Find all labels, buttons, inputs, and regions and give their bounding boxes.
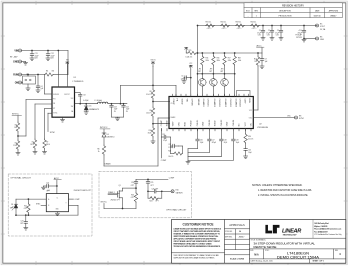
- wire gate row: [198, 73, 235, 75]
- jumper JP1: [27, 74, 29, 76]
- svg-text:C16: C16: [200, 140, 203, 142]
- capacitor C26: [147, 190, 149, 192]
- U2 top pin stubs: [172, 94, 174, 96]
- svg-text:JP4: JP4: [221, 68, 224, 70]
- svg-text:OPT: OPT: [155, 201, 158, 203]
- svg-text:470µF: 470µF: [298, 32, 302, 34]
- svg-text:C22: C22: [46, 182, 49, 184]
- svg-text:FB: FB: [53, 103, 55, 105]
- title block outline: [172, 220, 346, 264]
- node SYNC: [48, 112, 52, 114]
- wire RUN into U1: [44, 75, 46, 95]
- wire step: [188, 159, 233, 161]
- terminal E3 RUN: [19, 73, 22, 76]
- svg-text:47µF: 47µF: [114, 109, 118, 111]
- svg-text:RS1 0.1: RS1 0.1: [206, 22, 212, 24]
- svg-text:RS4 0.1: RS4 0.1: [251, 22, 257, 24]
- svg-text:6.3V: 6.3V: [258, 35, 261, 37]
- svg-text:U3: U3: [48, 190, 50, 192]
- svg-text:R3: R3: [15, 124, 17, 126]
- svg-text:R25: R25: [189, 50, 192, 52]
- terminal E8 SYNC: [295, 116, 298, 119]
- resistor R4: [45, 73, 54, 76]
- resistor R17: [224, 52, 226, 54]
- svg-text:OPT: OPT: [209, 71, 212, 73]
- optional circuit 1 box: [8, 174, 92, 236]
- svg-text:R17: R17: [228, 58, 231, 60]
- wire U3 output Y: [69, 198, 74, 200]
- capacitor C22: [56, 185, 58, 187]
- op U3 74HC1G86: [46, 194, 68, 212]
- resistor R24: [147, 191, 149, 198]
- svg-text:47µF: 47µF: [200, 142, 204, 144]
- wire avcc to U3: [56, 180, 58, 193]
- svg-text:E8: E8: [299, 115, 301, 117]
- wire cap gnd rail: [112, 116, 124, 118]
- svg-text:OPTIONAL CIRCUIT: OPTIONAL CIRCUIT: [166, 208, 187, 211]
- svg-text:1. RESISTOR AND CAPCITOR CASE: 1. RESISTOR AND CAPCITOR CASE SIZE IS 12…: [258, 189, 312, 192]
- svg-text:RUN/SS: RUN/SS: [53, 94, 59, 96]
- svg-text:C8: C8: [83, 94, 85, 96]
- svg-text:OSC: OSC: [179, 121, 181, 126]
- resistor RS1: [206, 24, 215, 27]
- capacitor C16: [197, 129, 199, 140]
- svg-text:47µF: 47µF: [266, 32, 270, 34]
- svg-text:COMP: COMP: [75, 199, 81, 201]
- capacitor C8: [75, 92, 80, 94]
- svg-text:R20: R20: [168, 151, 171, 153]
- svg-text:RUN: RUN: [13, 75, 18, 77]
- svg-text:C1: C1: [259, 30, 261, 32]
- wire SW out: [75, 103, 98, 105]
- svg-text:PCB DES.: PCB DES.: [225, 231, 233, 233]
- svg-text:C24: C24: [131, 182, 134, 184]
- svg-text:SYNC: SYNC: [50, 132, 56, 134]
- svg-text:C15: C15: [162, 134, 165, 136]
- svg-text:CHLD2: CHLD2: [209, 119, 211, 126]
- capacitor C5: [189, 65, 192, 70]
- svg-text:COMP: COMP: [161, 160, 167, 162]
- capacitor C24: [135, 179, 137, 181]
- svg-text:51k 1%: 51k 1%: [146, 94, 152, 96]
- resistor R1: [35, 103, 52, 105]
- svg-text:R23: R23: [131, 194, 134, 196]
- jumper JP5: [237, 91, 251, 97]
- svg-text:APPROVED: APPROVED: [329, 10, 339, 13]
- svg-text:OPT: OPT: [24, 208, 27, 210]
- ground U1: [62, 117, 64, 119]
- resistor R18: [234, 52, 236, 54]
- svg-text:JEANLY: JEANLY: [330, 15, 337, 18]
- wire tap to U2 top: [153, 84, 176, 86]
- svg-text:VIN: VIN: [14, 51, 18, 53]
- svg-text:R24: R24: [150, 201, 153, 203]
- U2 bottom pin stubs: [161, 129, 163, 131]
- terminal E5 VOUT: [316, 24, 319, 27]
- capacitor C1: [262, 25, 264, 27]
- svg-text:R7: R7: [46, 141, 48, 143]
- capacitor C18: [220, 129, 222, 140]
- svg-text:RUN: RUN: [248, 99, 250, 104]
- svg-text:10k 1%: 10k 1%: [146, 112, 152, 114]
- ground: [302, 39, 306, 42]
- svg-text:0.47µF: 0.47µF: [83, 100, 88, 102]
- capacitor C15: [162, 136, 165, 138]
- resistor R3: [17, 116, 19, 122]
- svg-text:PRODUCTION: PRODUCTION: [279, 16, 292, 18]
- svg-text:C13: C13: [114, 106, 117, 108]
- wire DRAIN bus: [103, 155, 105, 166]
- svg-text:TECHNOLOGY: TECHNOLOGY: [283, 235, 298, 237]
- svg-text:33.2k: 33.2k: [148, 132, 152, 134]
- LED D3: [15, 199, 17, 204]
- svg-text:L1 6.8µH: L1 6.8µH: [95, 100, 103, 102]
- resistor R14: [245, 129, 247, 134]
- transistor Q4: [224, 73, 226, 75]
- capacitor C20: [245, 144, 247, 149]
- transistor Q2: [201, 73, 203, 75]
- svg-text:1µF: 1µF: [265, 61, 268, 63]
- svg-text:OPT: OPT: [220, 71, 223, 73]
- capacitor C11: [31, 50, 33, 52]
- resistor R9: [151, 107, 154, 117]
- svg-text:6.3V: 6.3V: [267, 35, 270, 37]
- svg-text:CHLD1: CHLD1: [197, 119, 199, 126]
- resistor R7 RT: [45, 108, 53, 110]
- resistor RS3: [236, 24, 245, 27]
- svg-text:CHOLD3: CHOLD3: [229, 99, 231, 108]
- svg-text:28.7k: 28.7k: [46, 144, 50, 146]
- resistor R16: [213, 52, 215, 54]
- svg-text:CHOLD2: CHOLD2: [218, 99, 220, 108]
- svg-text:47µF: 47µF: [224, 142, 228, 144]
- svg-text:OPT: OPT: [131, 197, 134, 199]
- svg-text:SIZE: SIZE: [250, 250, 253, 252]
- capacitor C3: [280, 25, 282, 27]
- svg-text:DESCRIPTION: DESCRIPTION: [279, 11, 291, 13]
- svg-text:OPTIONAL CIRCUIT: OPTIONAL CIRCUIT: [10, 176, 31, 179]
- svg-text:VCC: VCC: [245, 122, 247, 127]
- svg-text:E10: E10: [176, 190, 179, 192]
- svg-text:1µF: 1µF: [41, 88, 44, 90]
- wire step: [188, 148, 198, 150]
- wire PG: [26, 99, 52, 101]
- resistor R23: [135, 187, 137, 189]
- wire step: [188, 156, 221, 158]
- wire sense drop to U2: [197, 25, 199, 27]
- capacitor C4: [37, 74, 39, 76]
- diode D1 MBRA340T3: [85, 103, 87, 105]
- svg-text:SHEET 1 OF 1: SHEET 1 OF 1: [313, 261, 324, 263]
- svg-text:CHLD3: CHLD3: [221, 119, 223, 126]
- svg-text:RS3 0.1: RS3 0.1: [236, 22, 242, 24]
- svg-text:DATE: Monday, July 06, 2010: DATE: Monday, July 06, 2010: [251, 260, 273, 263]
- svg-text:C19: C19: [236, 140, 239, 142]
- resistor R10: [151, 127, 154, 137]
- resistor R13: [257, 52, 259, 54]
- address: [312, 220, 314, 239]
- svg-text:JP3: JP3: [210, 68, 213, 70]
- svg-text:06/07/10: 06/07/10: [314, 16, 321, 18]
- svg-text:C14: C14: [126, 106, 129, 108]
- svg-text:VOUT1: VOUT1: [150, 60, 155, 62]
- svg-text:COMP: COMP: [169, 178, 175, 180]
- wire VIN drop to R4: [67, 51, 69, 75]
- svg-text:SYNC: SYNC: [299, 118, 305, 120]
- svg-text:LT4180EGN: LT4180EGN: [257, 127, 269, 129]
- resistor R20: [170, 146, 172, 154]
- svg-text:E6: E6: [320, 36, 322, 38]
- svg-text:R8: R8: [149, 91, 151, 93]
- wire tap to U2 FB pin: [152, 117, 154, 127]
- ground under JP1: [27, 84, 29, 88]
- svg-text:GND: GND: [320, 39, 325, 41]
- svg-text:E5: E5: [320, 23, 322, 25]
- svg-text:R18: R18: [238, 58, 241, 60]
- svg-text:OPT: OPT: [131, 185, 134, 187]
- svg-text:R14: R14: [248, 136, 251, 138]
- svg-text:47µF: 47µF: [257, 32, 261, 34]
- svg-text:249k: 249k: [206, 60, 210, 62]
- wire vout1 feedback riser: [120, 103, 122, 105]
- svg-text:GUARD3: GUARD3: [224, 99, 227, 108]
- svg-text:B: B: [48, 205, 49, 207]
- svg-text:DRAIN: DRAIN: [105, 163, 112, 166]
- wire VIN rail: [22, 50, 69, 52]
- svg-text:GND: GND: [227, 121, 229, 126]
- svg-text:47µF: 47µF: [275, 32, 279, 34]
- ground: [23, 63, 27, 66]
- svg-text:C20: C20: [248, 150, 251, 152]
- svg-text:V+: V+: [57, 197, 59, 199]
- svg-text:BOOST: BOOST: [64, 94, 69, 96]
- svg-text:R13: R13: [254, 58, 257, 60]
- wire AVCC row: [198, 52, 263, 54]
- svg-text:OVSNS: OVSNS: [190, 99, 192, 107]
- wire L1 out: [108, 103, 127, 105]
- resistor R15: [201, 52, 203, 54]
- svg-text:MBRA340T3: MBRA340T3: [89, 108, 99, 111]
- svg-text:REVISION HISTORY: REVISION HISTORY: [282, 5, 304, 7]
- terminal E10 GATEDR: [171, 190, 174, 193]
- svg-text:10µF: 10µF: [236, 142, 240, 144]
- svg-text:470µF: 470µF: [212, 142, 216, 144]
- svg-text:249k: 249k: [217, 60, 221, 62]
- capacitor C13: [111, 103, 113, 105]
- resistor R2: [17, 135, 19, 137]
- svg-text:187k: 187k: [30, 144, 34, 146]
- svg-text:C3: C3: [277, 30, 279, 32]
- supply arrow VIN over U1: [66, 62, 69, 67]
- svg-text:OPT: OPT: [198, 71, 201, 73]
- svg-text:D3: D3: [11, 204, 13, 206]
- svg-text:CHOLD4: CHOLD4: [239, 99, 241, 108]
- svg-text:SGND: SGND: [215, 120, 217, 126]
- svg-text:5V, 3A: 5V, 3A: [320, 28, 326, 31]
- svg-text:R16: R16: [217, 58, 220, 60]
- capacitor C12: [47, 50, 49, 52]
- resistor R21: [28, 198, 30, 200]
- svg-text:2. INSTALL SHUNTS IN LOCATION: 2. INSTALL SHUNTS IN LOCATIONS INDICATE.: [258, 194, 309, 197]
- svg-text:1k: 1k: [98, 151, 100, 153]
- inductor L1: [98, 102, 108, 104]
- terminal E1 VIN: [19, 49, 22, 52]
- svg-text:JP2: JP2: [199, 68, 202, 70]
- transistor Q3: [213, 73, 215, 75]
- svg-text:C21: C21: [168, 144, 171, 146]
- capacitor C25: [147, 179, 149, 181]
- svg-text:GND: GND: [56, 209, 59, 211]
- svg-text:10k: 10k: [254, 61, 257, 63]
- svg-text:1: 1: [256, 16, 257, 18]
- svg-text:9V - 36V: 9V - 36V: [10, 56, 18, 58]
- svg-text:CHLD4: CHLD4: [233, 119, 235, 126]
- svg-text:R2: R2: [15, 142, 17, 144]
- svg-text:2N7002 OPT: 2N7002 OPT: [111, 200, 120, 202]
- resistor R25: [185, 48, 188, 53]
- svg-text:ON: ON: [15, 83, 19, 85]
- svg-text:1µF: 1µF: [181, 79, 184, 81]
- wire OSC to terminal: [253, 117, 294, 119]
- svg-text:SCALE = NONE: SCALE = NONE: [230, 258, 245, 261]
- svg-text:17.4k: 17.4k: [13, 145, 17, 147]
- wire U3 lower right loop: [69, 204, 79, 206]
- wire VOUT sense bus: [198, 25, 318, 27]
- svg-text:R4: R4: [46, 70, 48, 72]
- svg-text:R21: R21: [24, 205, 27, 207]
- svg-text:CUSTOMER NOTICE: CUSTOMER NOTICE: [182, 222, 213, 226]
- svg-text:10µF: 10µF: [248, 152, 252, 154]
- ground U3: [56, 212, 58, 214]
- capacitor C17: [208, 129, 210, 140]
- svg-text:20k 1%: 20k 1%: [168, 156, 174, 158]
- resistor RS4: [251, 24, 260, 27]
- svg-text:249k: 249k: [228, 60, 232, 62]
- svg-text:N/A: N/A: [254, 252, 259, 256]
- svg-text:RT: RT: [53, 108, 55, 110]
- ground: [151, 141, 155, 144]
- resistor R6: [102, 145, 105, 155]
- svg-text:6.3V: 6.3V: [276, 35, 279, 37]
- svg-text:GUARD4: GUARD4: [234, 99, 237, 108]
- svg-text:OPT: OPT: [20, 223, 23, 225]
- wire RUN rail: [22, 74, 45, 76]
- svg-text:6V: 6V: [114, 111, 116, 113]
- svg-text:GND: GND: [13, 62, 18, 64]
- svg-text:VDIV: VDIV: [173, 121, 175, 126]
- capacitor C23: [25, 214, 27, 216]
- svg-text:74HC/HCT1G86YF-OPT: 74HC/HCT1G86YF-OPT: [73, 190, 91, 192]
- svg-text:LT3480EDD: LT3480EDD: [73, 81, 84, 83]
- svg-text:REMOTE SENSE: REMOTE SENSE: [254, 245, 277, 249]
- svg-text:C5: C5: [181, 76, 183, 78]
- wire U3 input A: [16, 198, 46, 200]
- svg-text:SENSE: SENSE: [197, 99, 199, 106]
- svg-text:VIN: VIN: [186, 99, 188, 103]
- svg-text:IC NO.: IC NO.: [265, 250, 270, 252]
- terminal E2 GND: [19, 60, 22, 63]
- svg-text:GATEDR: GATEDR: [176, 191, 184, 194]
- capacitor C10 optional: [303, 25, 305, 27]
- svg-text:VIN: VIN: [71, 98, 74, 100]
- svg-text:SGND: SGND: [167, 120, 169, 126]
- svg-text:+C10: +C10: [298, 30, 302, 32]
- svg-text:10k: 10k: [14, 127, 17, 129]
- svg-text:C26-OPT: C26-OPT: [152, 188, 159, 190]
- svg-text:Y: Y: [65, 202, 66, 204]
- wire merge to ground: [187, 149, 189, 162]
- supply arrow vout1: [151, 62, 154, 67]
- svg-text:APPROVALS: APPROVALS: [229, 223, 245, 227]
- svg-text:R9: R9: [149, 110, 151, 112]
- svg-text:C23: C23: [20, 220, 23, 222]
- svg-text:CHOLD1: CHOLD1: [207, 99, 209, 108]
- svg-text:47µF: 47µF: [126, 109, 130, 111]
- terminal E6 GND: [316, 37, 319, 40]
- revision history table: [244, 3, 342, 18]
- resistor RS2: [221, 24, 230, 27]
- LTC logo: [265, 225, 279, 234]
- svg-text:OV: OV: [171, 103, 173, 105]
- svg-text:6V: 6V: [126, 111, 128, 113]
- svg-text:C9: C9: [265, 58, 267, 60]
- svg-text:OPT: OPT: [10, 207, 13, 209]
- wire VIN pin up: [57, 50, 59, 52]
- wire: [152, 67, 154, 90]
- op U1 LT3480EDD: [52, 87, 75, 117]
- capacitor C21: [171, 145, 173, 147]
- svg-text:R10: R10: [149, 130, 152, 132]
- ground: [115, 118, 119, 121]
- svg-text:100k: 100k: [238, 60, 242, 62]
- compensation network: [161, 129, 163, 138]
- resistor R8: [151, 89, 154, 99]
- svg-text:RUN: RUN: [185, 121, 187, 126]
- svg-text:D1: D1: [89, 106, 91, 108]
- svg-text:C18: C18: [224, 140, 227, 142]
- svg-text:6.04k 1%: 6.04k 1%: [186, 57, 193, 59]
- svg-text:R1: R1: [32, 141, 34, 143]
- optional circuit 2 box: [99, 172, 192, 218]
- svg-text:OPTION: OPTION: [296, 37, 302, 39]
- svg-text:CMDSH-3: CMDSH-3: [107, 136, 115, 138]
- svg-text:VCC: VCC: [189, 63, 192, 65]
- wire step: [188, 152, 209, 154]
- wire R13 to VCC pin: [257, 66, 259, 110]
- svg-text:GUARD2: GUARD2: [213, 99, 216, 108]
- svg-text:Q1: Q1: [119, 185, 121, 187]
- svg-text:CDIV: CDIV: [244, 99, 246, 104]
- svg-text:51k 1%: 51k 1%: [248, 138, 254, 140]
- diode D4 CMDSH-3: [103, 129, 105, 133]
- svg-text:JP1: JP1: [26, 74, 29, 76]
- svg-text:R15: R15: [206, 58, 209, 60]
- svg-text:C17: C17: [212, 140, 215, 142]
- svg-text:COMP: COMP: [161, 120, 163, 127]
- svg-text:47µF: 47µF: [163, 140, 167, 142]
- capacitor C19: [232, 129, 234, 140]
- svg-text:C25: C25: [150, 182, 153, 184]
- svg-text:C2: C2: [268, 30, 270, 32]
- op U2 LT4180EGN: [169, 97, 253, 129]
- svg-text:C4: C4: [41, 86, 43, 88]
- svg-text:SGND: SGND: [181, 99, 183, 105]
- capacitor C2: [271, 25, 273, 27]
- svg-text:RS2 0.1: RS2 0.1: [221, 22, 227, 24]
- terminal E4 ON/OFF: [19, 81, 22, 84]
- svg-text:GND: GND: [203, 121, 205, 126]
- capacitor C14: [123, 103, 125, 105]
